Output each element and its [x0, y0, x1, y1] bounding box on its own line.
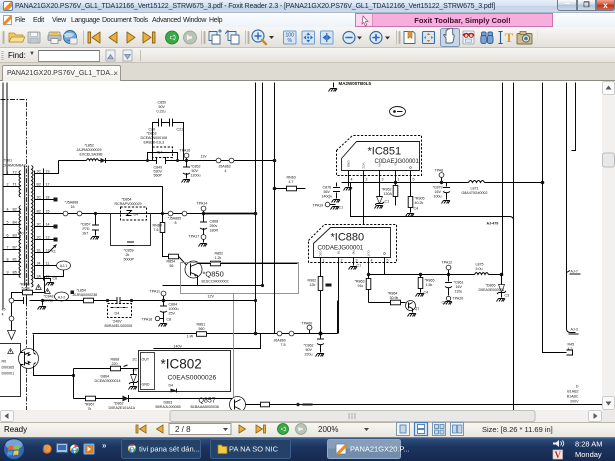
ground pin10 [46, 283, 55, 286]
resistor R962 [308, 263, 332, 334]
svg-text:14: 14 [46, 223, 50, 227]
svg-text:B7: B7 [13, 246, 17, 250]
capacitor C857 [81, 214, 100, 236]
test point TPA14 [197, 202, 208, 216]
svg-text:C8: C8 [167, 318, 172, 322]
svg-text:*C879: *C879 [433, 186, 443, 190]
window chrome [0, 0, 615, 13]
wire long 333 run [33, 333, 338, 335]
svg-text:140Qv: 140Qv [322, 195, 333, 199]
svg-text:ERB38-01L3: ERB38-01L3 [144, 141, 165, 145]
svg-text:B2: B2 [37, 210, 41, 214]
transformer core lines [25, 166, 29, 286]
svg-text:T1: T1 [13, 183, 17, 187]
bus vertical V3 [273, 83, 277, 335]
ground C852 [182, 180, 191, 183]
relay block box [0, 344, 21, 397]
capacitor C864 [160, 299, 179, 323]
wire R868 row [74, 368, 141, 370]
svg-text:8: 8 [175, 221, 177, 225]
test point TPA11 [150, 290, 166, 301]
svg-text:PANA21GX20.P...: PANA21GX20.P... [350, 445, 410, 454]
ground R905 [406, 214, 415, 217]
connector pin P1 [9, 298, 14, 303]
bus vertical V6 with R45 tap [543, 83, 575, 356]
svg-text:1200u: 1200u [191, 174, 201, 178]
svg-text:%: % [287, 38, 292, 44]
bus vertical V5 [513, 83, 515, 411]
transformer left pin 5 [4, 221, 21, 225]
svg-text:B1SCCM000002: B1SCCM000002 [202, 280, 229, 284]
svg-text:C4: C4 [414, 207, 419, 211]
diode D853 dashed body [141, 132, 173, 158]
wire 140V run [154, 334, 261, 349]
svg-text:*R864: *R864 [388, 292, 398, 296]
capacitor C868 [200, 214, 218, 235]
svg-text:OSC: OSC [319, 251, 323, 257]
diode D853 bypass loop [146, 153, 179, 163]
svg-text:TPA17: TPA17 [189, 235, 200, 239]
svg-text:C1: C1 [339, 206, 344, 210]
svg-text:34: 34 [37, 262, 41, 266]
capacitor C859 [124, 242, 135, 262]
svg-text:12V: 12V [208, 295, 215, 299]
svg-text:12: 12 [46, 249, 50, 253]
svg-text:5000P: 5000P [124, 258, 135, 262]
svg-text:30.9k: 30.9k [390, 296, 399, 300]
svg-text:TPA19: TPA19 [313, 204, 324, 208]
svg-text:7.6: 7.6 [154, 228, 159, 232]
svg-text:*J5A865: *J5A865 [168, 217, 182, 221]
svg-text:560P: 560P [154, 174, 163, 178]
resistor R952 [382, 186, 398, 206]
transformer pin table rail [43, 169, 45, 281]
svg-text:1.5k: 1.5k [426, 283, 433, 287]
svg-text:L875: L875 [476, 263, 484, 267]
svg-text:AJ-1: AJ-1 [60, 264, 67, 268]
wire Q850 emitter row [163, 276, 265, 288]
diode D851 dashed module [105, 304, 133, 329]
inductor L852 [77, 144, 104, 161]
svg-text:C868: C868 [210, 220, 219, 224]
shield box Q850 (gray) [181, 263, 299, 294]
svg-text:2E: 2E [133, 368, 138, 372]
connector J5A868 [63, 201, 82, 216]
start orb [3, 438, 25, 460]
diode D854 dashed body [121, 207, 147, 220]
zener D864 [95, 369, 139, 386]
svg-text:*R867: *R867 [85, 403, 95, 407]
wire Q850 collector [198, 263, 298, 265]
svg-text:tivi pana sét dán...: tivi pana sét dán... [139, 445, 200, 454]
inductor L875 [475, 263, 489, 275]
svg-text:4: 4 [7, 208, 9, 212]
svg-text:5.6M: 5.6M [22, 287, 30, 291]
svg-text:OUT: OUT [367, 251, 371, 257]
svg-text:4: 4 [351, 178, 353, 182]
task buttons [122, 440, 201, 459]
ground IC880 pin3 [349, 267, 358, 270]
inductor L854 [71, 289, 98, 303]
svg-text:TB: TB [337, 251, 341, 255]
svg-text:B3: B3 [13, 234, 17, 238]
ground D852 [375, 206, 384, 209]
svg-text:2 / 8: 2 / 8 [175, 425, 191, 434]
node AJ-1 oval [57, 261, 71, 270]
wire photocoupler left leads [21, 353, 24, 365]
transformer left pin 4 [4, 208, 21, 212]
connector J5A862 [216, 158, 234, 173]
wire main 213 run [35, 213, 256, 215]
transformer left pin 2 [4, 183, 21, 187]
ground Q858 [408, 314, 417, 317]
quick launch [42, 444, 51, 453]
resistor R905 [408, 197, 424, 213]
svg-text:1: 1 [7, 171, 9, 175]
bus 274 run [367, 273, 504, 277]
node AJ-2 oval [55, 292, 69, 301]
svg-text:B: B [394, 164, 398, 166]
transistor Q850 [185, 261, 202, 278]
test point TPA18 [142, 316, 172, 321]
svg-text:8:28 AM: 8:28 AM [575, 440, 603, 449]
op-amp IC851 dashed body [337, 136, 422, 176]
svg-text:EXCELSA39B: EXCELSA39B [80, 153, 104, 157]
transformer right pin 15 [37, 210, 50, 214]
op-amp IC851 [342, 142, 420, 171]
svg-text:IN: IN [378, 164, 382, 167]
IC802 inner pin box [141, 353, 155, 390]
svg-text:C0EAS0000026: C0EAS0000026 [168, 375, 217, 382]
svg-text:R861: R861 [197, 323, 206, 327]
bus vertical V4 [502, 83, 504, 276]
test point TPA8 [435, 169, 444, 185]
diode D850 inline [101, 158, 106, 163]
svg-text:B1: B1 [13, 258, 17, 262]
svg-text:AJ-479: AJ-479 [487, 222, 499, 226]
node junction 162,213 [161, 212, 164, 215]
svg-text:4.7: 4.7 [289, 180, 294, 184]
svg-text:56: 56 [170, 264, 174, 268]
warning triangle relay [8, 349, 14, 354]
test point TPA17 [189, 235, 206, 243]
svg-text:13: 13 [46, 236, 50, 240]
svg-text:3C: 3C [37, 170, 42, 174]
svg-text:TPA60: TPA60 [302, 322, 313, 326]
svg-text:56V: 56V [324, 190, 331, 194]
IC880 pin 5 stub [385, 258, 389, 275]
capacitor C858 series [106, 297, 133, 304]
svg-text:TPA8: TPA8 [435, 169, 444, 173]
test point TPA2C [442, 296, 464, 304]
label 940 [18, 232, 24, 236]
wire 12V rail (gray) [233, 294, 235, 398]
svg-text:D00001: D00001 [2, 372, 15, 376]
IC851 pin 3 stub [380, 171, 384, 197]
svg-text:TPA16: TPA16 [180, 149, 191, 153]
ground D865 [497, 299, 506, 302]
node junction C857 [94, 212, 97, 215]
wire left rail A [2, 83, 4, 309]
svg-text:RCRAPV000029: RCRAPV000029 [115, 202, 142, 206]
capacitor C852 [183, 161, 201, 179]
svg-text:91k: 91k [358, 284, 364, 288]
svg-text:100u: 100u [434, 195, 442, 199]
svg-text:19: 19 [46, 170, 50, 174]
tray [553, 440, 564, 447]
svg-text:D863: D863 [164, 401, 173, 405]
svg-text:1000u: 1000u [169, 307, 179, 311]
capacitor C849 series [154, 157, 166, 178]
svg-text:3C: 3C [37, 223, 42, 227]
IC880 pin 1 stub [321, 258, 325, 263]
svg-text:8: 8 [7, 258, 9, 262]
svg-text:C864: C864 [169, 303, 178, 307]
svg-text:C0DAEJG00001: C0DAEJG00001 [318, 245, 364, 252]
ground C879 [442, 201, 451, 204]
bus vertical V1 [254, 83, 258, 336]
transformer right pin 14 [35, 223, 58, 229]
svg-text:12k: 12k [310, 283, 316, 287]
transformer right pin 12 / K1 arrow [35, 245, 57, 254]
svg-text:140V: 140V [174, 345, 183, 349]
svg-text:2: 2 [341, 259, 343, 263]
resistor R861 [187, 323, 207, 339]
resistor RN64 [153, 214, 169, 257]
svg-text:TPA12: TPA12 [442, 261, 453, 265]
svg-text:T: T [505, 30, 514, 45]
svg-text:OUT: OUT [142, 358, 150, 362]
svg-text:4: 4 [371, 259, 373, 263]
svg-text:*IC802: *IC802 [161, 357, 202, 372]
bus vertical V7 with AJ-3 tap [567, 83, 579, 335]
svg-text:6: 6 [7, 234, 9, 238]
svg-text:*L854: *L854 [77, 289, 86, 293]
svg-text:B4: B4 [13, 221, 17, 225]
svg-text:DCEA0N000108: DCEA0N000108 [141, 136, 168, 140]
wire bottom row 398 [74, 398, 234, 400]
wire R864 row [369, 302, 406, 304]
svg-text:*Q850: *Q850 [203, 270, 224, 279]
svg-text:*R863: *R863 [355, 280, 365, 284]
svg-text:C3: C3 [505, 294, 510, 298]
svg-text:5.0u: 5.0u [476, 267, 483, 271]
svg-text:B1BAAAB000036: B1BAAAB000036 [191, 405, 219, 409]
svg-text:D00365: D00365 [2, 366, 15, 370]
svg-text:'240V': '240V' [113, 320, 123, 324]
resistor R865 [418, 275, 434, 295]
ground C876 [332, 200, 341, 203]
svg-text:R0: R0 [2, 360, 7, 364]
svg-text:50V: 50V [192, 169, 199, 173]
svg-text:130A: 130A [384, 192, 393, 196]
svg-text:Q857: Q857 [199, 398, 216, 405]
svg-text:R854: R854 [167, 260, 176, 264]
svg-text:CHAMOMBA2: CHAMOMBA2 [3, 164, 26, 168]
diode D863 marker [156, 384, 181, 410]
svg-text:*C862: *C862 [304, 344, 314, 348]
svg-text:7.5: 7.5 [281, 343, 286, 347]
node junction C862 [319, 332, 323, 336]
svg-text:*T801: *T801 [3, 159, 13, 163]
ground C848 [38, 307, 47, 310]
photocoupler D860 [19, 349, 39, 369]
transformer right pin 19 [35, 161, 59, 174]
svg-text:45: 45 [2, 308, 6, 312]
svg-text:5: 5 [7, 221, 9, 225]
svg-text:*R905: *R905 [415, 197, 425, 201]
svg-text:J5A862: J5A862 [219, 165, 231, 169]
svg-text:*C852: *C852 [191, 165, 201, 169]
svg-text:TPA20: TPA20 [453, 297, 464, 301]
svg-text:T2: T2 [13, 171, 17, 175]
svg-text:1-W: 1-W [187, 335, 194, 339]
svg-text:*C857: *C857 [81, 223, 91, 227]
svg-text:1: 1 [398, 178, 400, 182]
svg-text:*IC880: *IC880 [331, 232, 365, 244]
svg-text:3: 3 [382, 178, 384, 182]
node junction L871 [541, 181, 545, 185]
transformer T801 [19, 166, 35, 288]
svg-text:AJ-3: AJ-3 [571, 328, 578, 332]
svg-text:J0JRA0000238: J0JRA0000238 [73, 293, 98, 297]
svg-text:AJ-7: AJ-7 [571, 270, 578, 274]
capacitor C876 [322, 183, 341, 199]
svg-text:D4: D4 [115, 312, 120, 316]
svg-text:DCEA03000014: DCEA03000014 [95, 379, 121, 383]
svg-text:200%: 200% [318, 425, 338, 434]
svg-text:50V: 50V [159, 105, 166, 109]
svg-text:C850: C850 [158, 101, 167, 105]
svg-text:VCC: VCC [362, 163, 366, 170]
svg-text:B2: B2 [13, 208, 17, 212]
IC851 pin 4 stub [394, 171, 400, 186]
svg-text:5: 5 [413, 178, 415, 182]
resistor R867 [85, 396, 96, 411]
transformer right pin 17 [35, 183, 50, 187]
transformer right pin 18 [35, 196, 58, 202]
wire main 160 run [59, 160, 275, 162]
test point TPA19 [313, 202, 344, 209]
node junction 73,375 [72, 369, 75, 399]
wire bottom out run [246, 404, 603, 406]
net label AJ-7 [567, 270, 581, 275]
svg-text:C21: C21 [177, 128, 184, 132]
svg-text:JAJRA0000029: JAJRA0000029 [77, 148, 102, 152]
svg-text:2: 2 [366, 178, 368, 182]
svg-text:C876: C876 [323, 186, 332, 190]
svg-text:*D854: *D854 [122, 198, 132, 202]
node junction C848 [41, 299, 44, 306]
capacitor C848 label [44, 295, 54, 303]
bus vertical V8 short [572, 83, 576, 151]
svg-text:0.22u: 0.22u [157, 110, 166, 114]
svg-text:RB: RB [352, 251, 356, 255]
transistor Q858 [406, 301, 420, 313]
wire AJ-1 to lower-left [45, 270, 64, 293]
zener D865 [479, 275, 510, 298]
svg-text:25V: 25V [169, 312, 176, 316]
wire left rail B [6, 83, 8, 175]
resistor R871 [261, 402, 270, 407]
svg-text:16V: 16V [456, 285, 463, 289]
svg-text:B1AB2: B1AB2 [567, 390, 578, 394]
svg-text:P7D: P7D [83, 227, 90, 231]
svg-text:R852: R852 [215, 252, 224, 256]
svg-text:50V: 50V [306, 348, 313, 352]
svg-text:R45: R45 [568, 343, 575, 347]
svg-text:TPA11: TPA11 [150, 290, 160, 294]
ground C857 [91, 237, 100, 240]
ground D864 [129, 387, 138, 390]
svg-text:C20: C20 [149, 128, 156, 132]
resistor RN63 [275, 176, 306, 191]
svg-text:3: 3 [356, 259, 358, 263]
warning triangle C848 [45, 289, 51, 294]
part text block bottom right [567, 385, 579, 404]
off-page arrow AC input [8, 321, 16, 340]
svg-text:220u: 220u [305, 353, 313, 357]
IC880 pin 4 stub [369, 258, 373, 275]
svg-text:3A: 3A [37, 275, 42, 279]
IC880 pin 2 stub long [339, 258, 343, 334]
svg-text:11V: 11V [201, 155, 208, 159]
node marker diamond [296, 403, 313, 407]
svg-text:TPA18: TPA18 [142, 318, 153, 322]
svg-text:4: 4 [2, 313, 4, 317]
ground symbol top [329, 89, 338, 92]
svg-text:V: V [555, 450, 562, 460]
transformer left pin 8 [4, 258, 21, 262]
transistor Q850 label [202, 270, 229, 284]
svg-text:2C: 2C [133, 358, 138, 362]
svg-text:C1: C1 [385, 200, 390, 204]
svg-text:B2: B2 [37, 183, 41, 187]
svg-text:Size: [8.26 * 11.69 in]: Size: [8.26 * 11.69 in] [482, 425, 553, 434]
ground top stub [334, 81, 372, 88]
svg-text:*IC851: *IC851 [368, 146, 402, 158]
svg-text:AJ-2: AJ-2 [58, 296, 65, 300]
IC802 pin 2E [133, 368, 138, 372]
capacitor C879 [433, 183, 451, 200]
wire pin17 long [45, 187, 163, 214]
wire AJ-479 loop [351, 183, 514, 411]
node AJ-3 oval [390, 107, 406, 117]
warning triangle R860 [36, 285, 42, 290]
svg-text:RN63: RN63 [287, 176, 296, 180]
svg-text:110u: 110u [455, 290, 463, 294]
bus 182 run [342, 182, 543, 184]
svg-text:17: 17 [46, 183, 50, 187]
ground R865 [416, 294, 425, 297]
op-amp IC880 [314, 228, 391, 258]
svg-text:560: 560 [199, 327, 205, 331]
svg-text:15: 15 [46, 210, 50, 214]
connector J5A865 [168, 211, 187, 225]
svg-text:*D862: *D862 [114, 402, 124, 406]
transformer right pin 10 [35, 275, 58, 282]
svg-text:MA2W00TB0L5: MA2W00TB0L5 [339, 81, 372, 86]
svg-text:S1: S1 [37, 249, 41, 253]
svg-text:200V: 200V [570, 400, 579, 404]
bus vertical V2 [262, 83, 264, 286]
svg-text:PA NA SO NIC: PA NA SO NIC [229, 445, 279, 454]
svg-text:2k: 2k [126, 253, 130, 257]
svg-text:1: 1 [323, 259, 325, 263]
svg-text:K1: K1 [52, 250, 56, 254]
transistor Q857 [191, 397, 246, 413]
svg-text:Monday: Monday [575, 450, 602, 459]
